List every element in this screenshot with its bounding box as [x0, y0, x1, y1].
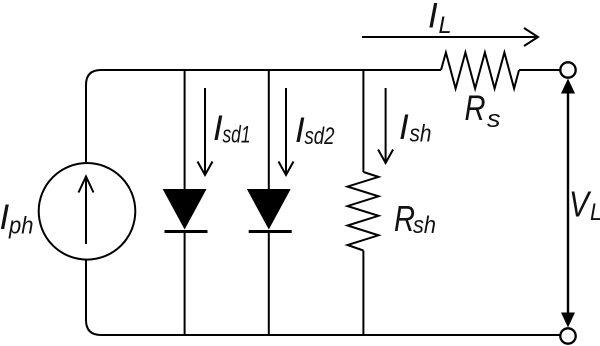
svg-text:I: I	[295, 111, 305, 150]
wire bottom horizontal bus	[86, 260, 561, 336]
svg-text:s: s	[487, 106, 501, 133]
diode D2	[248, 190, 292, 232]
svg-text:sh: sh	[413, 212, 436, 239]
svg-text:R: R	[394, 198, 415, 239]
svg-text:L: L	[439, 12, 452, 39]
svg-text:sh: sh	[410, 121, 432, 148]
label Isd2 current arrow	[279, 88, 294, 175]
label IL	[428, 0, 452, 39]
label Ish	[399, 108, 432, 148]
svg-text:V: V	[569, 184, 591, 225]
wire Rsh branch	[362, 70, 364, 172]
wire diode D2 branch	[268, 70, 270, 190]
svg-text:I: I	[399, 108, 409, 147]
svg-text:ph: ph	[8, 213, 33, 240]
label Rs	[465, 89, 501, 133]
label Isd1	[213, 109, 251, 149]
resistor Rsh	[348, 172, 379, 251]
node terminal top-right	[560, 62, 575, 77]
label Isd2	[295, 111, 335, 150]
svg-text:I: I	[428, 0, 438, 36]
label Isd1 current arrow	[198, 88, 213, 175]
label Ish current arrow	[378, 88, 393, 163]
wire diode D1 branch	[184, 70, 186, 190]
label VL	[569, 184, 600, 227]
svg-text:R: R	[465, 89, 486, 128]
wire top horizontal bus	[86, 70, 441, 163]
svg-text:I: I	[213, 109, 223, 148]
svg-text:sd2: sd2	[305, 123, 335, 150]
diode D1	[164, 190, 208, 232]
label Rsh	[394, 198, 436, 239]
label VL voltage arrow	[561, 79, 575, 328]
label Iph	[0, 198, 34, 240]
node terminal bottom-right	[560, 328, 575, 343]
svg-text:L: L	[590, 199, 600, 226]
current source Iph	[39, 163, 136, 260]
svg-text:sd1: sd1	[223, 122, 251, 149]
label IL current arrow	[362, 28, 538, 46]
resistor Rs	[441, 53, 519, 89]
